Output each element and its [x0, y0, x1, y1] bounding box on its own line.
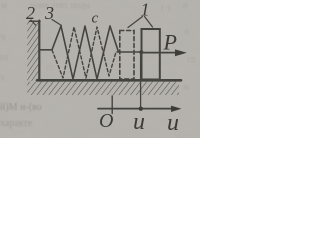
wall 2 (hatched support at left) [27, 21, 40, 82]
origin tick on u axis [111, 96, 113, 114]
piston 1 (solid, displaced position) [142, 29, 160, 80]
leader lines for label 1 [128, 17, 143, 28]
node: spring attachment dot [139, 50, 143, 54]
leader line for label 2 [31, 20, 36, 25]
node: dot on u axis [139, 107, 143, 111]
paper background [0, 0, 200, 138]
u axis (horizontal, arrow right) [98, 106, 182, 112]
spring c (dashed, initial position) [52, 27, 120, 78]
scan noise overlay [0, 0, 200, 138]
spring c (solid, displaced position) [39, 26, 140, 79]
piston 1 (dashed, initial position) [120, 31, 134, 80]
leader line for label 3 [52, 20, 62, 26]
force arrow P [143, 49, 187, 56]
displacement marker line u (from piston down to axis) [140, 53, 142, 107]
floor (hatched ground) [27, 80, 181, 95]
